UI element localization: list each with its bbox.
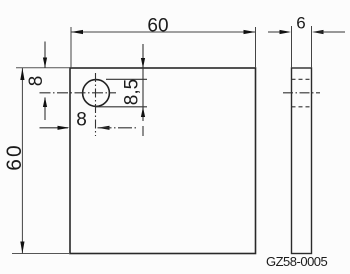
svg-text:6: 6 <box>296 14 305 33</box>
svg-text:8,5: 8,5 <box>122 79 143 105</box>
left 8 dimension line upper tail <box>44 42 46 69</box>
top edge extension line (left of plate) <box>16 67 70 69</box>
hole top tangent extension line <box>106 78 147 80</box>
side view hole centerline <box>283 92 320 94</box>
left 60 top arrow <box>20 68 24 80</box>
6 dimension line right tail <box>314 31 345 33</box>
top 60 right arrow <box>244 30 256 34</box>
side view right extension line <box>311 26 313 68</box>
8.5 upper arrow (points down to plate top edge) <box>141 58 145 68</box>
6 dimension line left tail <box>268 31 289 33</box>
horizontal 8 dimension line right tail (dash-dot) <box>98 127 137 129</box>
side view hidden line (hole bottom) <box>292 106 312 108</box>
left 8 upper arrow (points down to top edge) <box>43 58 47 68</box>
hole vertical centerline <box>95 73 97 136</box>
horizontal 8 right arrow (points left to hole centerline) <box>98 126 110 130</box>
8.5 lower arrow (points up to bottom tangent) <box>141 107 145 117</box>
side view hidden line (hole top) <box>292 78 312 80</box>
horizontal 8 left arrow (points right to plate left edge) <box>58 126 70 130</box>
hole circle <box>83 80 110 107</box>
left 60 bottom arrow <box>20 242 24 254</box>
6 left arrow (points right to side view left edge) <box>280 30 292 34</box>
svg-text:60: 60 <box>147 16 168 37</box>
svg-text:GZ58-0005: GZ58-0005 <box>266 254 328 269</box>
side view left extension line <box>291 26 293 68</box>
side view outline <box>292 68 312 254</box>
front view plate outline <box>70 68 256 254</box>
left 8 dimension line lower tail <box>44 98 46 121</box>
8.5 dimension line <box>142 44 144 121</box>
svg-text:60: 60 <box>3 143 26 170</box>
hole horizontal centerline <box>40 92 117 94</box>
6 right arrow (points left to side view right edge) <box>312 30 324 34</box>
top 60 dimension line <box>71 31 256 33</box>
svg-text:8: 8 <box>76 110 87 131</box>
horizontal 8 dimension line left tail <box>40 127 69 129</box>
svg-text:8: 8 <box>26 76 47 87</box>
8.5 dimension line lower dash <box>142 126 144 136</box>
hole bottom tangent extension line <box>95 106 147 108</box>
top 60 left extension line <box>70 27 72 68</box>
left 60 dimension line <box>21 68 23 254</box>
bottom edge extension line (left of plate) <box>12 253 70 255</box>
top 60 left arrow <box>71 30 83 34</box>
top 60 right extension line <box>255 27 257 68</box>
left 8 lower arrow (points up to hole centerline) <box>43 97 47 107</box>
